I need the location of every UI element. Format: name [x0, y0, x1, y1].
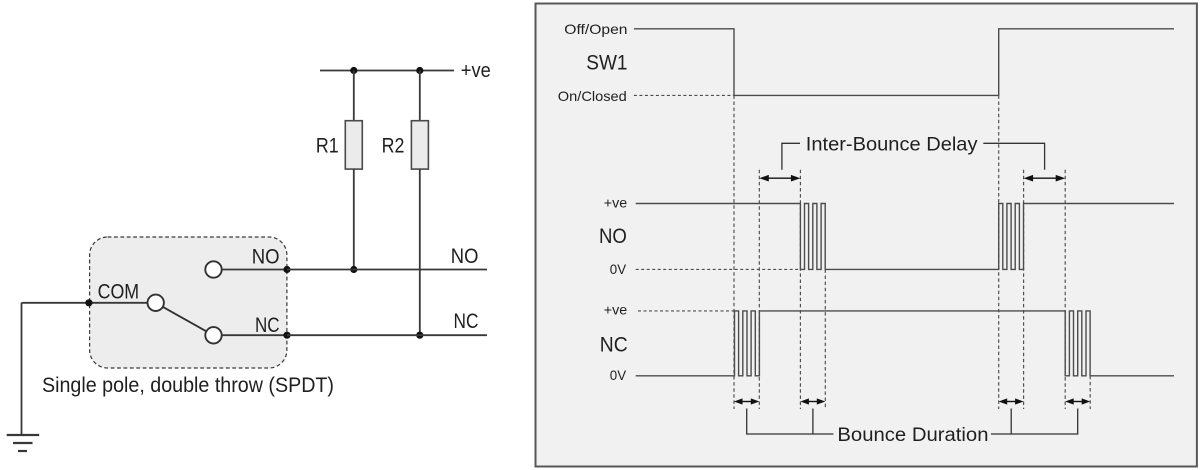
svg-text:Off/Open: Off/Open: [564, 21, 627, 37]
svg-text:NC: NC: [600, 334, 628, 357]
guide: dashed vertical at NO bounce 1 start: [799, 170, 801, 409]
waveform NO (with contact bounce): [636, 204, 1174, 270]
wire: ground riser: [21, 303, 23, 435]
svg-text:+ve: +ve: [604, 194, 628, 210]
node: junction dot NO at box edge: [283, 266, 290, 273]
wire: R1 top lead: [353, 71, 355, 121]
wire: NC contact to box edge: [222, 334, 287, 336]
callout bracket: Bounce Duration left: [747, 409, 834, 435]
guide: dashed vertical at NO bounce 1 end: [824, 269, 826, 409]
svg-text:SW1: SW1: [586, 52, 627, 75]
ground symbol bar 3: [18, 450, 27, 452]
svg-text:Bounce Duration: Bounce Duration: [837, 424, 988, 446]
dimension arrow: inter-bounce delay 1: [759, 175, 800, 182]
waveform NC (with contact bounce): [636, 311, 1174, 376]
wire: R1 bottom lead: [353, 169, 355, 269]
svg-text:+ve: +ve: [604, 302, 628, 318]
dimension arrow: bounce duration 3 (NO break): [999, 398, 1024, 404]
callout bracket: Bounce Duration right: [991, 409, 1078, 435]
svg-text:0V: 0V: [610, 367, 627, 383]
dimension arrow: bounce duration 1 (NC break): [734, 398, 759, 404]
resistor R1 body: [345, 121, 362, 169]
callout bracket: Inter-Bounce Delay right: [983, 143, 1044, 169]
callout bracket: Inter-Bounce Delay left: [782, 143, 800, 169]
guide: NO 0V dashed level: [636, 268, 798, 270]
svg-text:0V: 0V: [610, 261, 627, 277]
ground symbol bar 2: [13, 442, 33, 444]
dimension arrow: inter-bounce delay 2: [1024, 175, 1066, 182]
wire: COM lead from ground riser to pole: [22, 302, 148, 304]
svg-text:COM: COM: [98, 281, 140, 304]
wire: R2 top lead: [419, 71, 421, 121]
guide: dashed vertical at NC bounce 2 start: [1064, 170, 1066, 409]
svg-text:Single pole, double throw (SPD: Single pole, double throw (SPDT): [42, 374, 334, 397]
node: junction dot R2/rail: [416, 67, 423, 74]
switch SW1 body (dashed rounded box): [90, 237, 287, 368]
svg-text:NC: NC: [454, 310, 479, 333]
dimension arrow: bounce duration 2 (NO make): [800, 398, 825, 404]
wire: NO output wire: [287, 269, 487, 271]
node: junction dot R1/NO wire: [350, 266, 357, 273]
ground symbol bar 1: [7, 434, 40, 436]
svg-text:NO: NO: [599, 225, 627, 248]
guide: dashed vertical at SW1 rise / NO bounce 2 start: [998, 95, 1000, 409]
guide: dashed vertical at NC bounce 1 end: [758, 170, 760, 409]
guide: dashed vertical at NO bounce 2 end: [1023, 170, 1025, 409]
guide: On/Closed dashed level: [634, 94, 734, 96]
node: junction dot COM at box edge: [85, 299, 92, 306]
wire: +ve supply rail: [320, 70, 454, 72]
node: junction dot R1/rail: [350, 67, 357, 74]
wire: NC output wire: [287, 334, 487, 336]
dimension arrow: bounce duration 4 (NC make): [1065, 398, 1090, 404]
guide: NC +ve dashed level: [638, 310, 734, 312]
svg-text:NO: NO: [252, 246, 280, 269]
switch NC contact terminal: [205, 327, 221, 343]
node: junction dot NC at box edge: [283, 332, 290, 339]
svg-text:NO: NO: [451, 245, 479, 268]
wire: NO contact to box edge: [222, 269, 287, 271]
timing diagram panel frame: [536, 4, 1197, 467]
resistor R2 body: [411, 121, 428, 169]
guide: dashed vertical at SW1 fall / NC bounce start: [733, 95, 735, 409]
svg-text:On/Closed: On/Closed: [558, 88, 627, 104]
waveform SW1: [634, 29, 1174, 96]
svg-text:Inter-Bounce Delay: Inter-Bounce Delay: [806, 133, 978, 155]
svg-text:R1: R1: [316, 135, 339, 158]
svg-text:+ve: +ve: [461, 60, 491, 82]
guide: dashed vertical at NC bounce 2 end: [1089, 376, 1091, 409]
wire: R2 bottom lead: [419, 169, 421, 335]
svg-text:R2: R2: [382, 135, 405, 158]
switch lever arm: [163, 307, 206, 331]
switch NO contact terminal: [205, 261, 221, 277]
switch pole terminal (COM circle): [148, 295, 164, 311]
svg-text:NC: NC: [255, 314, 280, 337]
node: junction dot R2/NC wire: [416, 332, 423, 339]
